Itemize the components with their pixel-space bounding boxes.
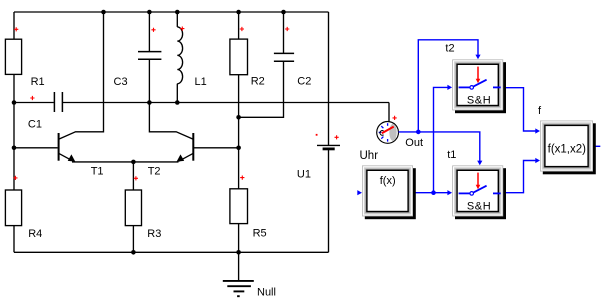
svg-text:C1: C1 — [28, 118, 42, 130]
svg-text:T2: T2 — [148, 165, 161, 177]
svg-text:R2: R2 — [251, 76, 265, 88]
svg-text:Null: Null — [257, 287, 276, 299]
svg-text:Uhr: Uhr — [360, 150, 379, 162]
svg-text:R3: R3 — [147, 228, 161, 240]
svg-text:R4: R4 — [28, 228, 42, 240]
svg-text:L1: L1 — [195, 76, 207, 88]
svg-text:f(x): f(x) — [380, 175, 396, 187]
svg-text:R1: R1 — [31, 76, 45, 88]
svg-text:f(x1,x2): f(x1,x2) — [548, 143, 587, 155]
svg-text:C3: C3 — [114, 76, 128, 88]
svg-text:S&H: S&H — [467, 200, 491, 212]
svg-text:C2: C2 — [297, 76, 311, 88]
svg-text:S&H: S&H — [467, 94, 491, 106]
svg-text:Out: Out — [405, 137, 423, 149]
svg-text:R5: R5 — [253, 228, 267, 240]
svg-text:T1: T1 — [91, 165, 104, 177]
svg-text:t1: t1 — [447, 149, 456, 161]
svg-text:U1: U1 — [297, 169, 311, 181]
svg-text:t2: t2 — [445, 42, 454, 54]
